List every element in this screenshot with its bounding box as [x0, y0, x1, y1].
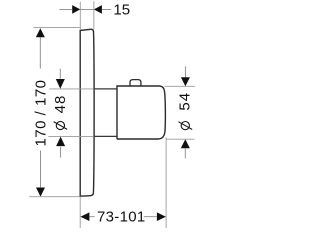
svg-text:54: 54: [176, 92, 193, 111]
safety button on handle top: [130, 80, 141, 86]
dim diameter 54: bottom arrow: [181, 139, 190, 148]
dim 170/170: bottom arrow: [36, 188, 45, 197]
escutcheon plate (side view): [80, 29, 94, 196]
dim diameter 48: top arrow: [56, 79, 65, 89]
dim 170/170: dimension line segments: [39, 37, 41, 187]
svg-text:48: 48: [52, 95, 69, 114]
sleeve top line: [94, 88, 117, 90]
dim diameter 54: diameter symbol: [181, 122, 189, 130]
dim 73-101: left extension line (plate back extended): [79, 196, 81, 228]
dim 15: right arrow: [94, 5, 102, 14]
svg-text:73-101: 73-101: [97, 209, 146, 226]
dim 73-101: right arrow: [157, 212, 166, 221]
dim diameter 48: top extension line: [49, 88, 93, 90]
dim 170/170: top extension line: [33, 27, 80, 29]
dim diameter 48: bottom arrow: [56, 137, 65, 147]
svg-text:170 / 170: 170 / 170: [33, 79, 50, 146]
handle knob (side view): [117, 86, 166, 139]
dim 15: dimension line segments: [59, 8, 111, 10]
dim diameter 54: bottom extension line: [167, 138, 195, 140]
dim diameter 48: bottom extension line: [48, 135, 93, 137]
sleeve bottom line: [94, 135, 117, 137]
dim diameter 54: dimension line tails: [184, 66, 186, 158]
dim diameter 54: top arrow: [181, 77, 190, 86]
dim 15: extension line right: [93, 1, 95, 29]
dim 73-101: left arrow: [80, 212, 89, 221]
dim diameter 48: diameter symbol: [56, 121, 64, 129]
dim 73-101: dimension line tails: [90, 216, 157, 218]
dim 15: extension line left: [79, 2, 81, 29]
dim diameter 54: top extension line: [165, 85, 196, 87]
dim 170/170: top arrow: [36, 28, 45, 37]
dim 15: left arrow: [72, 5, 80, 14]
svg-text:15: 15: [113, 2, 130, 19]
dim 73-101: right extension line (handle front): [165, 138, 167, 229]
dim diameter 48: dimension line tails: [59, 69, 61, 158]
dim 170/170: bottom extension line: [29, 196, 79, 198]
